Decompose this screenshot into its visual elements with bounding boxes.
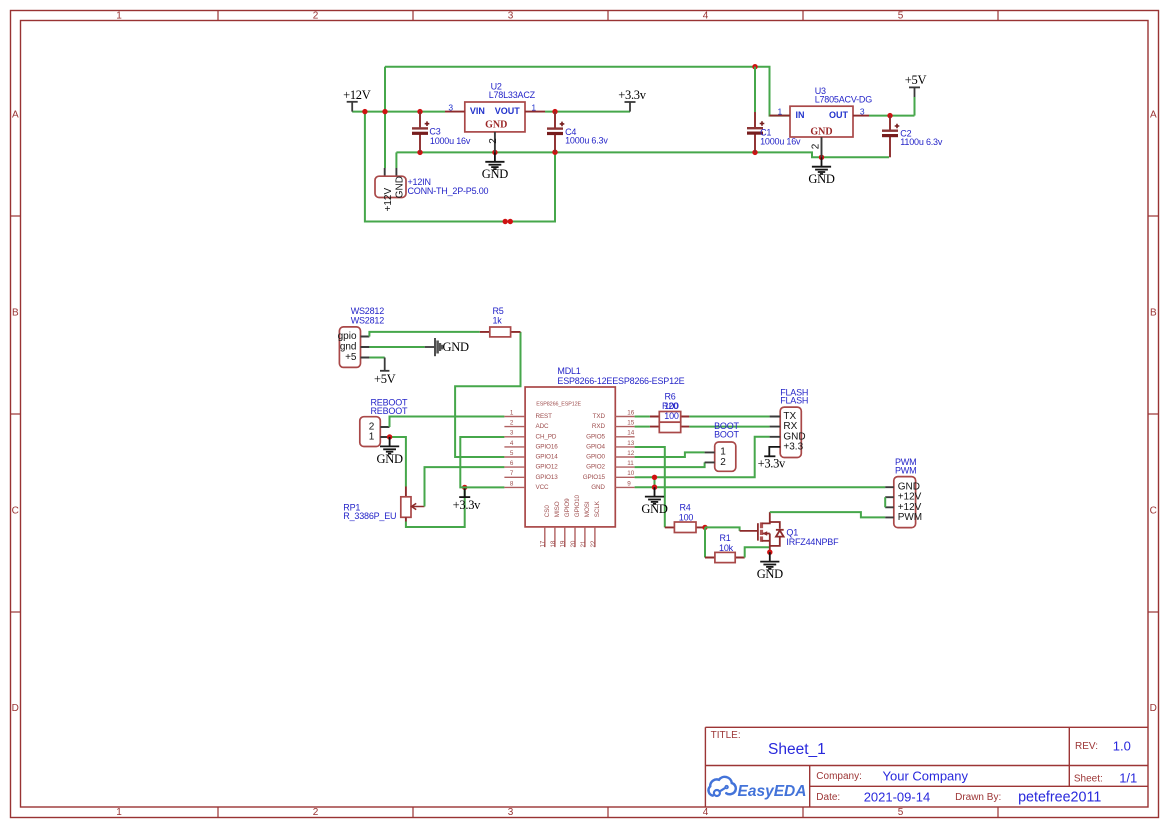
power symbol +3.3v (U2 out) — [625, 102, 636, 112]
svg-text:1: 1 — [531, 103, 536, 113]
svg-text:+12V: +12V — [343, 88, 371, 102]
ground symbol REBOOT — [380, 437, 399, 454]
svg-text:2: 2 — [313, 807, 319, 818]
MDL1 pin 15 (RXD) stub — [615, 426, 634, 428]
svg-text:R4: R4 — [679, 503, 690, 513]
svg-text:20: 20 — [570, 540, 577, 547]
power symbol +12V (input) — [347, 102, 358, 112]
svg-text:+5V: +5V — [905, 73, 927, 87]
svg-text:19: 19 — [560, 540, 567, 547]
MDL1 pin 6 (GPIO12) stub — [504, 466, 525, 468]
svg-text:100: 100 — [664, 411, 679, 421]
power symbol +3.3v (FLASH) — [764, 455, 775, 457]
svg-text:Your Company: Your Company — [883, 768, 969, 783]
ground symbol U2 — [485, 152, 504, 169]
svg-text:C: C — [1150, 506, 1157, 517]
BOOT pin stubs — [705, 452, 715, 462]
svg-text:GND: GND — [808, 172, 834, 186]
junction U3 GND pin — [819, 155, 824, 160]
wire R20 to FLASH RX — [689, 426, 769, 428]
svg-text:REST: REST — [536, 413, 553, 420]
transistor Q1 — [740, 523, 758, 540]
wire R4 to R1 — [704, 527, 706, 557]
svg-text:CONN-TH_2P-P5.00: CONN-TH_2P-P5.00 — [408, 186, 489, 196]
title block — [705, 727, 1148, 807]
U2 pin 3 (VIN) stub — [445, 111, 465, 113]
svg-text:VCC: VCC — [536, 484, 550, 491]
MDL1 pin 4 (GPIO16) stub — [504, 446, 525, 448]
svg-text:1: 1 — [116, 807, 122, 818]
wire WS2812 gpio to R5 — [369, 332, 479, 337]
MDL1 pin 8 (VCC) stub — [504, 486, 525, 488]
svg-text:GPIO12: GPIO12 — [536, 464, 559, 471]
svg-text:5: 5 — [898, 807, 904, 818]
MDL1 pin 2 (ADC) stub — [504, 426, 525, 428]
svg-text:10: 10 — [627, 470, 634, 477]
RP1 top lead — [405, 487, 407, 497]
wire ESP GPIO12 to RP1 wiper — [425, 467, 505, 506]
junction U2 GND pin — [492, 150, 497, 155]
wire R5 to ESP GPIO14 — [455, 332, 520, 457]
EasyEDA logo cloud icon — [709, 777, 736, 796]
svg-text:REV:: REV: — [1075, 741, 1098, 752]
svg-text:+12V: +12V — [383, 188, 394, 212]
svg-text:3: 3 — [508, 807, 514, 818]
svg-text:GPIO13: GPIO13 — [536, 474, 559, 481]
wire R1 to Q1 source — [745, 547, 770, 557]
svg-text:WS2812: WS2812 — [351, 316, 385, 326]
ground symbol U3 — [812, 157, 831, 174]
MDL1 pin 21 (MOSI) stub — [584, 527, 586, 547]
connector +12IN pin stubs — [385, 168, 397, 176]
capacitor C4 — [547, 112, 564, 153]
svg-text:ESP8266-12EESP8266-ESP12E: ESP8266-12EESP8266-ESP12E — [557, 376, 684, 386]
U3 pin 1 (IN) stub — [770, 115, 791, 117]
connector +12IN body — [375, 176, 406, 197]
svg-text:GND: GND — [641, 502, 667, 516]
wire GPIO2 to BOOT pin2 — [635, 462, 705, 467]
svg-text:GND: GND — [591, 484, 605, 491]
MDL1 pin 16 (TXD) stub — [615, 416, 634, 418]
svg-text:VIN: VIN — [470, 106, 485, 116]
wire PWM +12V tie — [884, 497, 886, 507]
svg-text:ESP8266_ESP12E: ESP8266_ESP12E — [536, 401, 581, 407]
R4 leads — [665, 526, 705, 528]
svg-text:+3.3: +3.3 — [783, 441, 803, 452]
svg-text:R5: R5 — [492, 306, 503, 316]
svg-text:R_3386P_EU: R_3386P_EU — [343, 511, 396, 521]
svg-text:GPIO14: GPIO14 — [536, 454, 559, 461]
wire GND rail drop to connector pin 2 — [395, 152, 397, 168]
wire REBOOT pin1 / RP1 top — [390, 437, 406, 487]
svg-text:B: B — [12, 308, 19, 319]
U2 pin 1 (VOUT) stub — [525, 111, 545, 113]
wire REBOOT pin2 to ESP REST — [390, 417, 505, 428]
svg-text:1: 1 — [510, 409, 514, 416]
RP1 bottom lead — [405, 517, 407, 521]
svg-text:Company:: Company: — [816, 771, 862, 782]
MDL1 pin 13 (GPIO4) stub — [615, 446, 634, 448]
connector BOOT body — [715, 442, 736, 471]
junction REBOOT pin1 — [387, 434, 392, 439]
svg-text:MOSI: MOSI — [584, 501, 591, 517]
wire +5V stem lower segment — [914, 97, 916, 116]
connector PWM body — [894, 477, 916, 528]
MDL1 pin 20 (GPIO10) stub — [574, 527, 576, 547]
svg-text:GPIO5: GPIO5 — [586, 433, 605, 440]
wire WS2812 +5 to +5V symbol — [369, 357, 384, 359]
svg-text:GPIO2: GPIO2 — [586, 464, 605, 471]
regulator U2 body — [465, 102, 525, 132]
svg-text:R1: R1 — [719, 533, 730, 543]
wire WS2812 gnd to ground — [369, 346, 424, 348]
svg-text:VOUT: VOUT — [495, 106, 521, 116]
svg-text:OUT: OUT — [829, 110, 849, 120]
svg-text:L78L33ACZ: L78L33ACZ — [489, 90, 536, 100]
wire TXD to R6 — [635, 416, 650, 418]
wire GND rail — [396, 152, 889, 157]
connector FLASH body — [780, 407, 801, 457]
wire U2 VOUT to +3.3v — [545, 111, 630, 113]
svg-text:CH_PD: CH_PD — [536, 433, 557, 440]
svg-text:GPIO4: GPIO4 — [586, 443, 605, 450]
svg-text:Drawn By:: Drawn By: — [955, 792, 1001, 803]
svg-text:TITLE:: TITLE: — [711, 730, 741, 741]
svg-text:2: 2 — [720, 457, 726, 468]
ground symbol ESP — [645, 487, 664, 504]
connector WS2812 body — [339, 327, 360, 368]
MDL1 pin 18 (MISO) stub — [554, 527, 556, 547]
U2 pin 2 (GND) stub — [494, 132, 496, 153]
svg-text:MISO: MISO — [554, 501, 561, 517]
svg-text:2: 2 — [510, 420, 514, 427]
potentiometer RP1 body — [401, 497, 411, 518]
RP1 wiper arrow — [412, 503, 425, 509]
wire GND to PWM GND — [635, 486, 886, 488]
svg-text:Sheet_1: Sheet_1 — [768, 741, 826, 758]
svg-text:Sheet:: Sheet: — [1074, 773, 1103, 784]
svg-text:22: 22 — [590, 540, 597, 547]
svg-text:1k: 1k — [492, 316, 502, 326]
svg-text:18: 18 — [550, 540, 557, 547]
svg-text:B: B — [1150, 308, 1157, 319]
svg-text:BOOT: BOOT — [714, 430, 739, 440]
svg-text:1: 1 — [369, 432, 375, 443]
svg-text:Date:: Date: — [816, 792, 840, 803]
svg-text:2: 2 — [313, 10, 319, 21]
svg-text:IN: IN — [796, 110, 805, 120]
resistor R5 body — [490, 327, 511, 337]
svg-text:PWM: PWM — [895, 466, 916, 476]
junction C3 top — [417, 109, 422, 114]
MDL1 pin 14 (GPIO5) stub — [615, 436, 634, 438]
svg-text:7: 7 — [510, 470, 514, 477]
ground symbol WS2812 gnd (sideways) — [425, 338, 435, 356]
svg-text:A: A — [12, 110, 19, 121]
svg-text:2: 2 — [810, 143, 821, 149]
svg-text:GND: GND — [394, 176, 405, 198]
svg-text:FLASH: FLASH — [780, 396, 808, 406]
R20 leads — [650, 426, 689, 428]
svg-text:GPIO15: GPIO15 — [583, 474, 606, 481]
MDL1 pin 10 (GPIO15) stub — [615, 476, 634, 478]
svg-text:10k: 10k — [719, 543, 734, 553]
MDL1 pin 22 (SCLK) stub — [594, 527, 596, 547]
resistor R4 body — [674, 522, 696, 533]
MDL1 pin 9 (GND) stub — [615, 486, 634, 488]
svg-text:GPIO0: GPIO0 — [586, 454, 605, 461]
svg-text:GND: GND — [377, 452, 403, 466]
svg-text:gpio: gpio — [338, 331, 357, 342]
regulator U3 body — [790, 106, 853, 137]
ground symbol Q1 — [760, 552, 779, 569]
wire R4 to Q1 gate — [705, 527, 740, 531]
svg-text:PWM: PWM — [898, 512, 922, 523]
junction +12V / loop — [362, 109, 367, 114]
R5 leads — [480, 331, 521, 333]
svg-text:+5V: +5V — [374, 372, 396, 386]
MDL1 pin 3 (CH_PD) stub — [504, 436, 525, 438]
svg-text:6: 6 — [510, 460, 514, 467]
svg-text:C: C — [12, 506, 19, 517]
WS2812 pin stubs — [361, 337, 370, 358]
U3 pin 2 (GND) stub — [821, 137, 823, 157]
junction loop dot A — [503, 219, 508, 224]
svg-text:11: 11 — [627, 460, 634, 467]
svg-text:12: 12 — [627, 450, 634, 457]
wire +12V vertical to connector pin 1 — [384, 67, 386, 168]
svg-text:3: 3 — [860, 106, 865, 116]
junction R4 / R1 / gate — [702, 525, 707, 530]
svg-text:GND: GND — [810, 126, 832, 137]
svg-text:13: 13 — [627, 440, 634, 447]
wire ESP CH_PD to VCC — [460, 437, 504, 487]
svg-text:GND: GND — [482, 167, 508, 181]
svg-text:GND: GND — [757, 567, 783, 581]
svg-text:MDL1: MDL1 — [557, 366, 580, 376]
capacitor C1 — [754, 67, 756, 112]
svg-text:IRFZ44NPBF: IRFZ44NPBF — [786, 537, 839, 547]
FLASH +3.3 pin stub — [769, 447, 780, 456]
junction GPIO15 wire — [652, 475, 657, 480]
MDL1 pin 12 (GPIO0) stub — [615, 456, 634, 458]
FLASH pin stubs — [770, 417, 781, 437]
svg-text:C3: C3 — [429, 126, 440, 136]
wire GPIO4 to R4 — [635, 447, 665, 527]
svg-text:RXD: RXD — [592, 423, 606, 430]
svg-text:GPIO10: GPIO10 — [574, 494, 581, 517]
MDL1 pin 7 (GPIO13) stub — [504, 476, 525, 478]
svg-text:3: 3 — [448, 103, 453, 113]
svg-text:+5: +5 — [345, 352, 357, 363]
junction C1 top — [752, 64, 757, 69]
R1 leads — [705, 557, 745, 559]
wire +12V top rail to U3 IN — [385, 67, 790, 116]
svg-text:5: 5 — [510, 450, 514, 457]
svg-text:3: 3 — [510, 430, 514, 437]
junction +12V / connector — [382, 109, 387, 114]
svg-text:16: 16 — [627, 409, 634, 416]
svg-text:3: 3 — [508, 10, 514, 21]
wire GPIO15 to FLASH GND — [635, 437, 770, 478]
wire Q1 drain to PWM — [770, 512, 885, 517]
svg-text:CS0: CS0 — [544, 505, 551, 518]
resistor R20 body — [659, 422, 680, 432]
svg-text:GPIO16: GPIO16 — [536, 443, 559, 450]
power symbol +5V (U3 out) — [909, 87, 920, 97]
svg-text:1000u 16v: 1000u 16v — [430, 136, 471, 146]
MDL1 pin 11 (GPIO2) stub — [615, 466, 634, 468]
junction C4 top — [552, 109, 557, 114]
junction +3.3v / VCC — [462, 485, 467, 490]
junction C4 bottom — [552, 150, 557, 155]
svg-text:GND: GND — [443, 340, 469, 354]
svg-text:A: A — [1150, 110, 1157, 121]
svg-text:+3.3v: +3.3v — [618, 88, 646, 102]
svg-text:SCLK: SCLK — [594, 500, 601, 517]
svg-text:gnd: gnd — [340, 342, 357, 353]
wire GPIO0 to BOOT pin1 — [635, 452, 705, 457]
svg-text:9: 9 — [627, 480, 631, 487]
resistor R6 body — [659, 412, 680, 423]
svg-text:1: 1 — [116, 10, 122, 21]
svg-text:EasyEDA: EasyEDA — [738, 783, 807, 800]
svg-text:17: 17 — [540, 540, 547, 547]
svg-text:WS2812: WS2812 — [351, 306, 385, 316]
svg-text:1/1: 1/1 — [1119, 771, 1137, 786]
connector REBOOT body — [360, 417, 381, 447]
svg-text:1000u 16v: 1000u 16v — [760, 137, 801, 147]
power symbol +3.3v (ESP VCC) — [459, 487, 470, 497]
power symbol +5V (WS2812) — [380, 358, 389, 371]
svg-text:1.0: 1.0 — [1113, 739, 1131, 754]
capacitor C2 — [882, 116, 899, 158]
svg-text:L7805ACV-DG: L7805ACV-DG — [815, 95, 873, 105]
MDL1 pin 17 (CS0) stub — [544, 527, 546, 547]
wire U3 OUT to +5V — [869, 115, 915, 117]
svg-text:ADC: ADC — [536, 423, 550, 430]
svg-text:4: 4 — [703, 807, 709, 818]
svg-text:Q1: Q1 — [786, 527, 798, 537]
svg-text:2: 2 — [488, 138, 499, 144]
PWM pin stubs — [885, 487, 894, 517]
junction Q1 source / GND — [767, 550, 772, 555]
svg-text:15: 15 — [627, 420, 634, 427]
svg-text:5: 5 — [898, 10, 904, 21]
svg-text:D: D — [12, 703, 19, 714]
junction C3 bottom — [417, 150, 422, 155]
junction GND wire — [652, 485, 657, 490]
wire bottom loop wire — [365, 112, 555, 222]
svg-text:1000u 6.3v: 1000u 6.3v — [565, 136, 608, 146]
wire GPIO15-GND tie — [654, 477, 656, 487]
wire +12V main to U2 VIN — [352, 111, 445, 113]
MDL1 pin 19 (GPIO9) stub — [564, 527, 566, 547]
svg-text:4: 4 — [510, 440, 514, 447]
REBOOT pin stubs — [380, 427, 389, 437]
module MDL1 body — [525, 387, 615, 527]
svg-text:4: 4 — [703, 10, 709, 21]
wire RP1 bottom to +3.3v rail — [406, 487, 465, 527]
svg-text:TXD: TXD — [593, 413, 606, 420]
svg-text:REBOOT: REBOOT — [371, 406, 409, 416]
svg-text:14: 14 — [627, 430, 634, 437]
svg-text:2021-09-14: 2021-09-14 — [864, 789, 931, 804]
junction loop dot B — [508, 219, 513, 224]
svg-text:R20: R20 — [662, 401, 678, 411]
U3 pin 3 (OUT) stub — [853, 115, 869, 117]
svg-text:D: D — [1150, 703, 1157, 714]
wire RXD to R20 — [635, 426, 650, 428]
svg-text:GND: GND — [485, 120, 507, 131]
svg-text:R6: R6 — [664, 391, 675, 401]
svg-text:1: 1 — [778, 106, 783, 116]
svg-text:1100u 6.3v: 1100u 6.3v — [900, 137, 943, 147]
resistor R1 body — [715, 552, 735, 562]
MDL1 pin 1 (REST) stub — [504, 416, 525, 418]
R6 leads — [650, 416, 689, 418]
junction C1 bottom — [752, 150, 757, 155]
svg-text:21: 21 — [580, 540, 587, 547]
MDL1 pin 5 (GPIO14) stub — [504, 456, 525, 458]
svg-text:+3.3v: +3.3v — [758, 457, 786, 471]
svg-text:+3.3v: +3.3v — [453, 498, 481, 512]
wire R6 to FLASH TX — [689, 416, 769, 418]
svg-text:8: 8 — [510, 480, 514, 487]
svg-text:petefree2011: petefree2011 — [1018, 789, 1101, 805]
capacitor C3 — [412, 112, 429, 153]
svg-text:100: 100 — [679, 513, 694, 523]
junction C2 top — [887, 113, 892, 118]
svg-text:GPIO9: GPIO9 — [564, 498, 571, 517]
